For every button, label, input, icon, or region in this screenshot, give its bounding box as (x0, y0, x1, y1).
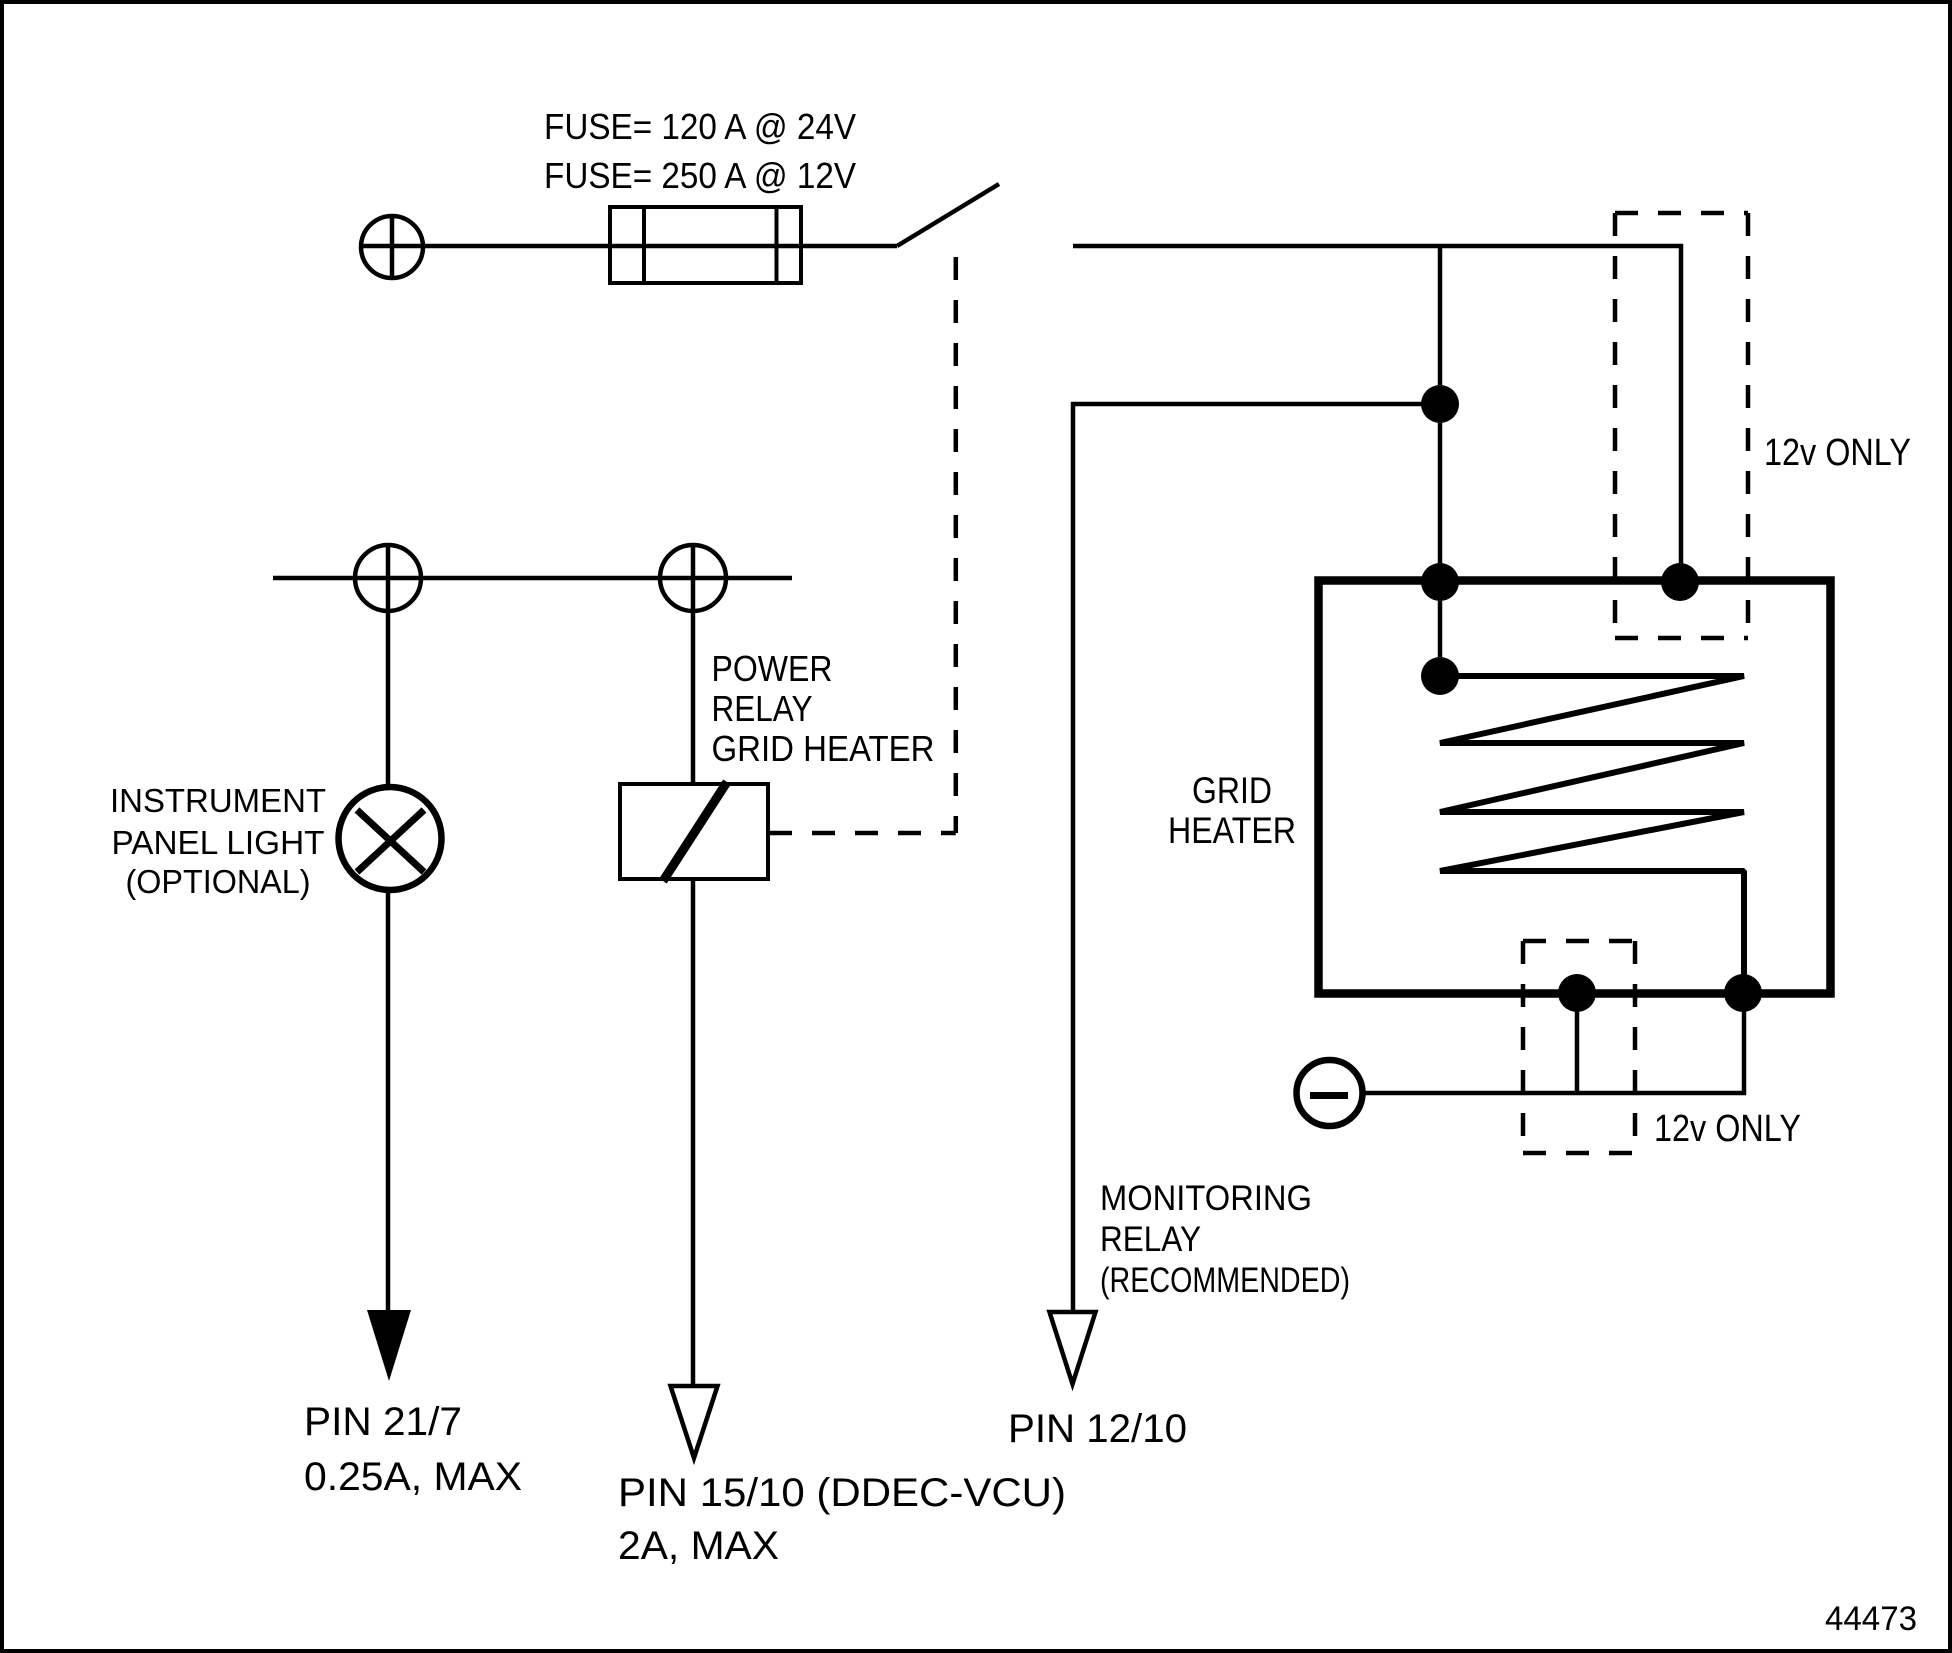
svg-text:RELAY: RELAY (1100, 1220, 1201, 1259)
svg-text:12v ONLY: 12v ONLY (1764, 432, 1911, 474)
svg-text:RELAY: RELAY (712, 688, 813, 729)
svg-text:HEATER: HEATER (1168, 810, 1296, 851)
svg-text:GRID HEATER: GRID HEATER (712, 728, 935, 769)
svg-text:PIN 12/10: PIN 12/10 (1008, 1407, 1187, 1451)
svg-text:FUSE= 120 A @ 24V: FUSE= 120 A @ 24V (544, 106, 856, 147)
svg-text:12v ONLY: 12v ONLY (1654, 1108, 1801, 1150)
svg-text:GRID: GRID (1192, 770, 1272, 811)
svg-text:FUSE= 250 A @ 12V: FUSE= 250 A @ 12V (544, 155, 856, 196)
svg-text:44473: 44473 (1825, 1600, 1917, 1638)
svg-text:0.25A, MAX: 0.25A, MAX (304, 1455, 522, 1499)
svg-text:PIN 21/7: PIN 21/7 (304, 1400, 462, 1444)
svg-text:(RECOMMENDED): (RECOMMENDED) (1100, 1261, 1350, 1300)
svg-text:POWER: POWER (712, 648, 833, 689)
svg-text:PANEL LIGHT: PANEL LIGHT (112, 824, 325, 861)
svg-text:MONITORING: MONITORING (1100, 1179, 1312, 1218)
svg-text:(OPTIONAL): (OPTIONAL) (126, 863, 311, 900)
svg-text:2A, MAX: 2A, MAX (618, 1524, 779, 1568)
svg-text:PIN 15/10 (DDEC-VCU): PIN 15/10 (DDEC-VCU) (618, 1471, 1066, 1515)
svg-text:INSTRUMENT: INSTRUMENT (110, 782, 326, 819)
